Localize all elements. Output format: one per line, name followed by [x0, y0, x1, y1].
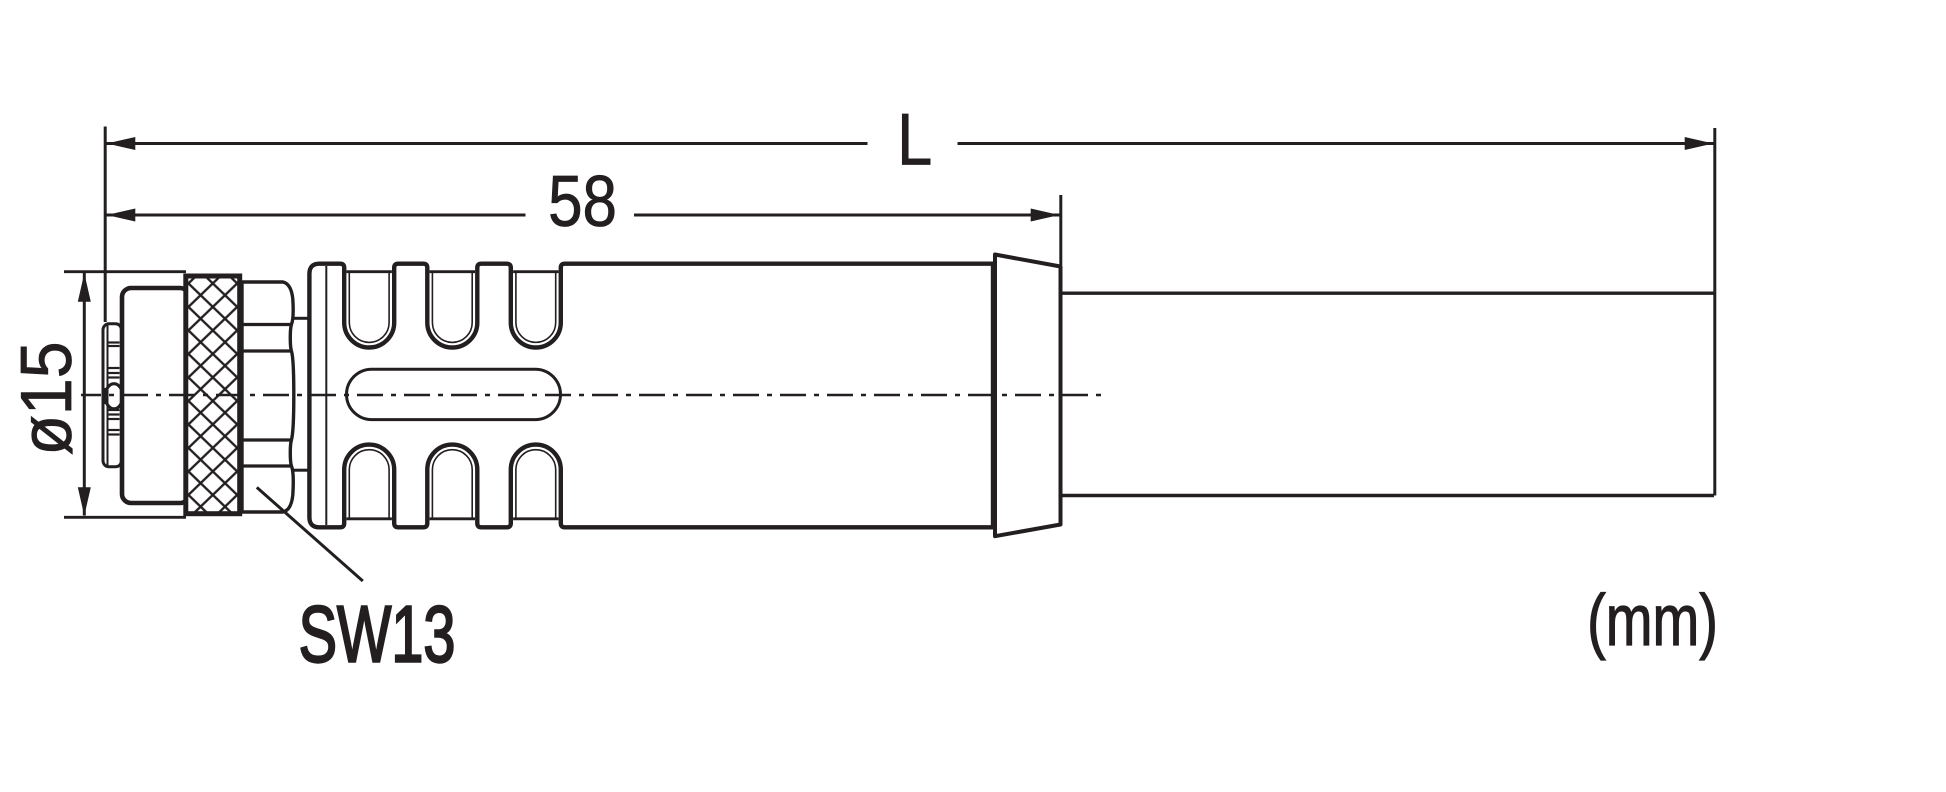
svg-text:58: 58 — [548, 161, 617, 241]
svg-text:L: L — [897, 98, 932, 181]
svg-text:(mm): (mm) — [1587, 580, 1718, 660]
dimension d15: dimension line — [83, 273, 86, 516]
SW13 leader line — [257, 487, 363, 581]
far-side lines seen through bottom rib cutouts — [347, 517, 559, 520]
SW13 label — [299, 589, 456, 679]
rib cutout inner lines bottom — [349, 450, 555, 518]
units note (mm) — [1587, 580, 1718, 660]
knurled coupling ring — [186, 276, 240, 514]
dimension 58: label — [548, 161, 617, 241]
svg-text:SW13: SW13 — [299, 589, 456, 679]
dimension L: extension line left — [104, 127, 107, 323]
dimension 58: left arrowhead — [107, 209, 136, 222]
dimension 58: right arrowhead — [1031, 209, 1060, 222]
dimension L: label — [897, 98, 932, 181]
dimension 58: dimension line — [105, 214, 1061, 217]
svg-text:ø15: ø15 — [5, 341, 86, 455]
dimension L: left arrowhead — [107, 137, 136, 150]
dimension L: dimension line — [105, 142, 1715, 145]
dimension L: right arrowhead — [1685, 137, 1714, 150]
connector face plate — [103, 324, 123, 467]
strain relief flange inner line — [325, 266, 327, 525]
dimension d15: label — [5, 341, 86, 455]
dimension d15: extension line bottom — [64, 516, 186, 519]
dimension d15: top arrowhead — [78, 273, 91, 302]
centerline — [81, 394, 1107, 397]
cable — [1062, 293, 1714, 495]
cable gland collar — [995, 255, 1061, 537]
strain relief grip body with rib cutouts — [309, 264, 993, 528]
dimension 58: extension line right — [1059, 195, 1062, 265]
hex nut SW13 — [242, 282, 294, 512]
dimension d15: bottom arrowhead — [78, 487, 91, 516]
neck between nut and strain relief — [294, 318, 309, 470]
dimension d15: extension line top — [64, 270, 186, 273]
cylinder body — [122, 288, 189, 503]
rib cutout inner lines top — [349, 273, 555, 343]
dimension L: extension line right / cable end — [1713, 128, 1716, 496]
grip slot (flat panel) — [347, 369, 561, 419]
far-side lines seen through top rib cutouts — [347, 270, 559, 273]
